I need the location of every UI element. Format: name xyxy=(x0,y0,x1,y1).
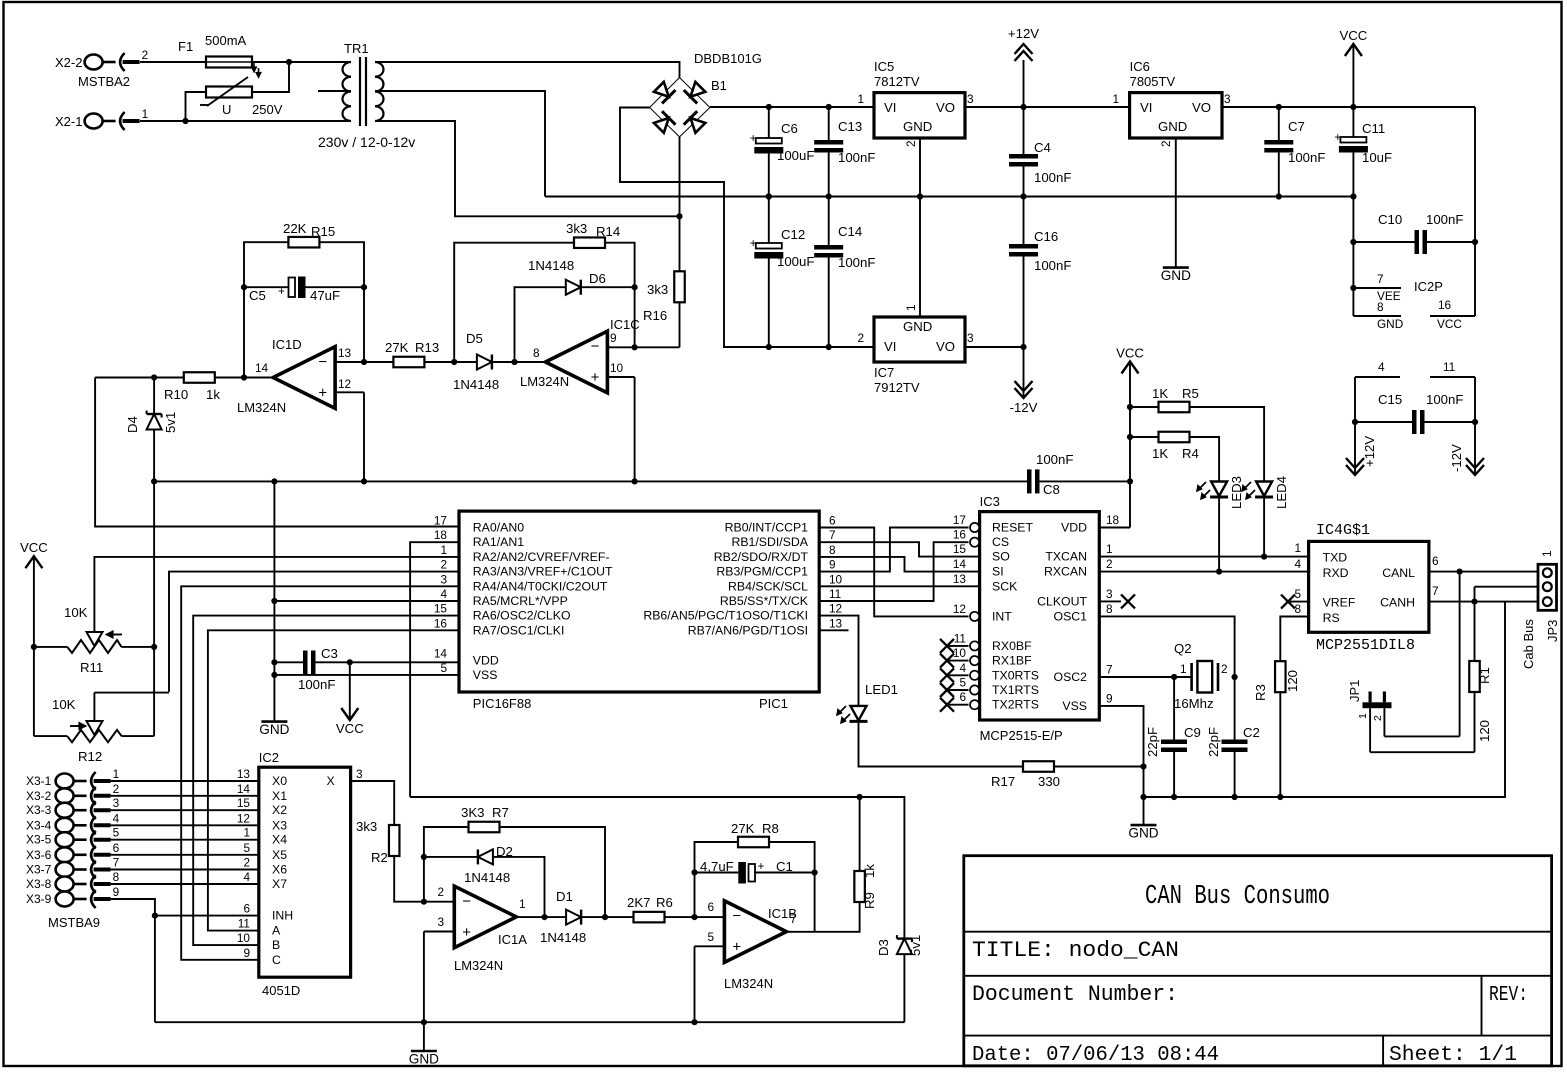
svg-text:3k3: 3k3 xyxy=(356,819,377,834)
junction VSS xyxy=(271,672,277,678)
junction rail/RA4 branch xyxy=(271,478,277,484)
svg-text:120: 120 xyxy=(1477,720,1492,742)
svg-text:+: + xyxy=(732,939,741,956)
wire R17 to VSS line xyxy=(1054,766,1144,768)
ground symbol below C3 xyxy=(261,720,287,723)
capacitor C15 plates xyxy=(1412,410,1417,434)
svg-text:C5: C5 xyxy=(249,288,266,303)
wire R12 left xyxy=(34,735,67,737)
wire D6 right xyxy=(581,286,635,288)
svg-text:VO: VO xyxy=(1192,100,1211,115)
junction CANH/R1 xyxy=(1471,599,1477,605)
svg-text:X0: X0 xyxy=(272,774,287,788)
svg-text:3: 3 xyxy=(1106,587,1113,601)
svg-text:47uF: 47uF xyxy=(310,288,340,303)
svg-text:VI: VI xyxy=(884,339,896,354)
diode D5 1N4148 xyxy=(477,355,492,370)
wire RA3 to R12 wiper route xyxy=(169,572,458,692)
junction C1 right xyxy=(812,869,818,875)
wire RA2 from R11 wiper xyxy=(94,557,458,632)
svg-text:3k3: 3k3 xyxy=(566,221,587,236)
svg-text:11: 11 xyxy=(1443,360,1455,374)
IC5 GND pin to ground rail through IC7 GND xyxy=(919,138,921,317)
VCC flag below C3 xyxy=(349,662,351,720)
no-connect X at IC3 pin y=675.3 xyxy=(940,668,954,682)
IC1A non-inverting input pin 3 xyxy=(424,931,454,933)
wire X3-2 to IC2 X1 xyxy=(111,795,259,797)
junction D6/R14 xyxy=(632,284,638,290)
capacitor C11 polarized xyxy=(1340,137,1366,143)
svg-text:2: 2 xyxy=(904,140,918,147)
wire TR1 secondary bottom to bridge AC xyxy=(375,121,680,216)
wire IC7 VO to -12V xyxy=(965,346,1024,348)
svg-text:1: 1 xyxy=(1180,662,1187,676)
junction R6/C1/R8 node xyxy=(691,914,697,920)
D4 rail continues to R12 xyxy=(153,481,155,736)
svg-text:RXD: RXD xyxy=(1323,566,1349,580)
svg-text:8: 8 xyxy=(1377,300,1384,314)
connector JP3 Cab Bus xyxy=(1538,564,1557,610)
wire IC1B pin5 down to bottom rail xyxy=(694,946,696,1022)
svg-text:4: 4 xyxy=(243,870,250,884)
svg-text:GND: GND xyxy=(1161,268,1191,283)
svg-text:OSC2: OSC2 xyxy=(1054,670,1088,684)
no-connect X at IC3 pin y=704.7 xyxy=(940,698,954,712)
wire X3-9 to INH node xyxy=(111,899,155,917)
resistor R15 22K xyxy=(288,237,319,248)
svg-text:2: 2 xyxy=(1159,140,1173,147)
svg-text:12: 12 xyxy=(237,811,250,825)
bridge diode left-top xyxy=(652,80,675,103)
resistor R2 3k3 xyxy=(389,825,400,856)
voltage regulator IC5 7812TV xyxy=(874,93,965,138)
bottom right ground rail xyxy=(1144,602,1506,797)
svg-text:1k: 1k xyxy=(862,864,877,878)
svg-text:1: 1 xyxy=(113,767,120,781)
svg-text:IC6: IC6 xyxy=(1130,59,1150,74)
resistor R7 3K3 xyxy=(469,822,500,833)
svg-text:D6: D6 xyxy=(589,271,606,286)
svg-text:RA4/AN4/T0CKI/C2OUT: RA4/AN4/T0CKI/C2OUT xyxy=(473,579,608,593)
junction C2 bottom xyxy=(1232,794,1238,800)
IC6 GND pin down xyxy=(1175,138,1177,268)
svg-text:7: 7 xyxy=(1377,272,1384,286)
svg-text:5: 5 xyxy=(1294,587,1301,601)
op-amp IC1B LM324N xyxy=(724,901,786,963)
wire varistor left down to X2-1 line xyxy=(186,92,207,121)
svg-text:VCC: VCC xyxy=(336,721,364,736)
svg-text:3: 3 xyxy=(437,915,444,929)
LED LED3 xyxy=(1211,482,1227,497)
wire X3-4 to IC2 X3 xyxy=(111,824,259,826)
LED3 light arrows xyxy=(1198,482,1206,490)
VCC flag left xyxy=(33,556,35,736)
power flag VCC left xyxy=(25,556,42,568)
crystal Q2 16Mhz xyxy=(1190,663,1193,691)
svg-text:2: 2 xyxy=(437,885,444,899)
svg-text:+: + xyxy=(318,385,327,402)
connector X3-1 pin xyxy=(56,774,74,789)
svg-text:100uF: 100uF xyxy=(777,254,814,269)
svg-text:100nF: 100nF xyxy=(1036,452,1073,467)
svg-text:3: 3 xyxy=(967,331,974,345)
svg-text:X: X xyxy=(327,774,335,788)
svg-text:+: + xyxy=(758,859,765,873)
svg-text:LED3: LED3 xyxy=(1229,476,1244,509)
microcontroller PIC1 PIC16F88 xyxy=(459,511,819,692)
svg-text:16: 16 xyxy=(1438,298,1452,312)
IC3 TXCAN wire to IC4 TXD xyxy=(1099,556,1308,558)
fuse arrows xyxy=(253,63,255,70)
wire IC1B out to R9 xyxy=(815,902,860,932)
bridge diode left-bottom xyxy=(652,111,675,134)
svg-text:DBDB101G: DBDB101G xyxy=(694,51,762,66)
wire VCC rail right corner down to C10 xyxy=(1474,107,1476,242)
svg-text:27K: 27K xyxy=(731,821,755,836)
svg-text:R17: R17 xyxy=(991,774,1015,789)
junction VCC flag / C11 xyxy=(1350,104,1356,110)
svg-text:9: 9 xyxy=(113,885,120,899)
resistor R10 1k xyxy=(184,372,215,383)
varistor U xyxy=(206,87,252,98)
junction C13 top xyxy=(826,104,832,110)
svg-text:IC2P: IC2P xyxy=(1414,279,1443,294)
svg-text:4: 4 xyxy=(113,811,120,825)
svg-text:RA3/AN3/VREF+/C1OUT: RA3/AN3/VREF+/C1OUT xyxy=(473,565,613,579)
R16 wires xyxy=(679,216,681,271)
svg-text:8: 8 xyxy=(1294,602,1301,616)
IC3 VDD wire to VCC xyxy=(1099,527,1130,529)
junction varistor/X2-1 xyxy=(182,118,188,124)
svg-text:100uF: 100uF xyxy=(777,148,814,163)
svg-text:TR1: TR1 xyxy=(344,41,369,56)
resistor R4 1K xyxy=(1159,432,1190,443)
junction C7 top xyxy=(1276,104,1282,110)
TR1 primary centre stub xyxy=(318,90,351,92)
svg-text:R3: R3 xyxy=(1253,684,1268,701)
svg-text:500mA: 500mA xyxy=(205,33,247,48)
wire X2-2 to fuse F1 xyxy=(140,61,206,63)
svg-text:6: 6 xyxy=(113,841,120,855)
wire X3-6 to IC2 X5 xyxy=(111,854,259,856)
svg-text:C: C xyxy=(272,953,281,967)
svg-text:2K7: 2K7 xyxy=(627,895,650,910)
svg-text:OSC1: OSC1 xyxy=(1054,609,1088,623)
bridge diode top-right xyxy=(684,80,707,103)
junction R10/R15/C5 node xyxy=(241,374,247,380)
diode D6 1N4148 xyxy=(566,280,581,295)
title block frame xyxy=(964,856,1552,1066)
wire RB6 to LED1 xyxy=(819,616,858,706)
wire pin9 node to R16 xyxy=(635,346,680,348)
svg-text:1N4148: 1N4148 xyxy=(540,930,586,945)
svg-text:C7: C7 xyxy=(1288,119,1305,134)
svg-text:MCP2515-E/P: MCP2515-E/P xyxy=(980,728,1063,743)
IC3 no-connect pins RX0BF..TX2RTS xyxy=(947,645,969,647)
wire RB4 to IC3 SCK xyxy=(819,585,979,587)
wire C8 right to VCC line xyxy=(1040,480,1131,482)
svg-text:Cab Bus: Cab Bus xyxy=(1521,619,1536,669)
svg-text:RA1/AN1: RA1/AN1 xyxy=(473,535,524,549)
svg-text:14: 14 xyxy=(434,646,448,660)
connector X3-9 pin xyxy=(56,892,74,907)
junction pin9/R16 xyxy=(632,344,638,350)
svg-text:11: 11 xyxy=(954,631,966,645)
svg-text:9: 9 xyxy=(829,558,836,572)
resistor R3 120 xyxy=(1275,661,1286,692)
capacitor C1 4,7uF polarized horizontal xyxy=(738,862,746,884)
output sense rail to D3 xyxy=(410,797,904,939)
resistor R17 330 xyxy=(1023,761,1054,772)
svg-text:2: 2 xyxy=(243,856,250,870)
svg-text:2: 2 xyxy=(857,331,864,345)
svg-text:RB7/AN6/PGD/T1OSI: RB7/AN6/PGD/T1OSI xyxy=(688,623,808,637)
wire R8 right down xyxy=(769,842,815,932)
wire LED3 to RXCAN xyxy=(1218,497,1220,571)
junction C5 right xyxy=(361,284,367,290)
svg-text:SO: SO xyxy=(992,550,1010,564)
svg-text:R9: R9 xyxy=(862,892,877,909)
svg-text:−: − xyxy=(732,908,741,925)
svg-text:C6: C6 xyxy=(781,121,798,136)
svg-text:CLKOUT: CLKOUT xyxy=(1037,594,1087,608)
svg-text:13: 13 xyxy=(237,767,251,781)
capacitor C12 polarized xyxy=(756,243,782,249)
R11 wiper adjust arrow xyxy=(106,634,122,636)
wire CANH to JP3 bottom pin xyxy=(1429,601,1543,603)
svg-text:100nF: 100nF xyxy=(1426,392,1463,407)
power flag VCC above IC3 xyxy=(1122,362,1139,374)
svg-text:GND: GND xyxy=(1377,317,1403,331)
IC1B non-inverting input pin 5 xyxy=(695,945,725,947)
svg-text:R2: R2 xyxy=(371,850,388,865)
capacitor C9 22pF xyxy=(1173,677,1175,740)
wire RA6 branch to IC2 B xyxy=(193,616,458,946)
svg-text:Document Number:: Document Number: xyxy=(972,982,1178,1007)
junction -12V tap xyxy=(1020,344,1026,350)
svg-text:VO: VO xyxy=(936,100,955,115)
wire C13 vertical xyxy=(828,107,830,140)
svg-text:100nF: 100nF xyxy=(838,255,875,270)
svg-text:1N4148: 1N4148 xyxy=(528,258,574,273)
svg-text:4: 4 xyxy=(440,587,447,601)
svg-text:C3: C3 xyxy=(321,646,338,661)
power flag +12V down left xyxy=(1354,422,1356,475)
svg-text:D5: D5 xyxy=(466,331,483,346)
svg-text:D4: D4 xyxy=(125,416,140,433)
svg-text:1: 1 xyxy=(1357,713,1369,719)
svg-text:1K: 1K xyxy=(1152,386,1168,401)
svg-text:X3-8: X3-8 xyxy=(26,877,52,891)
svg-text:RB5/SS*/TX/CK: RB5/SS*/TX/CK xyxy=(720,594,809,608)
junction C8/VCC line xyxy=(1127,478,1133,484)
power flag VCC below C3 xyxy=(341,708,358,720)
junction C4/C16 ground rail xyxy=(1020,193,1026,199)
svg-text:R4: R4 xyxy=(1182,446,1199,461)
wire IC1D pin12 to gnd rail xyxy=(363,392,365,481)
svg-text:10K: 10K xyxy=(64,605,88,620)
svg-text:RB2/SDO/RX/DT: RB2/SDO/RX/DT xyxy=(714,550,809,564)
svg-text:C1: C1 xyxy=(776,859,793,874)
op-amp IC1A LM324N xyxy=(454,886,516,948)
svg-text:GND: GND xyxy=(1158,119,1187,134)
svg-text:R16: R16 xyxy=(643,308,667,323)
svg-text:6: 6 xyxy=(959,690,966,704)
svg-text:100nF: 100nF xyxy=(1288,150,1325,165)
wire RB7 stub xyxy=(819,629,848,631)
svg-text:15: 15 xyxy=(237,796,251,810)
wire bridge + output to IC5 xyxy=(710,106,874,108)
svg-text:R6: R6 xyxy=(656,895,673,910)
wire R10 left node xyxy=(95,377,184,379)
junction R11 right xyxy=(151,644,157,650)
svg-text:VREF: VREF xyxy=(1323,596,1356,610)
svg-text:RXCAN: RXCAN xyxy=(1044,565,1087,579)
capacitor C14 xyxy=(814,245,843,250)
svg-text:3: 3 xyxy=(113,796,120,810)
-12V flag stem xyxy=(1023,347,1025,398)
svg-text:+: + xyxy=(750,131,757,145)
svg-text:4051D: 4051D xyxy=(262,983,300,998)
IC1D output pin 14 xyxy=(244,377,273,379)
svg-text:8: 8 xyxy=(113,870,120,884)
svg-text:5v1: 5v1 xyxy=(908,935,923,956)
capacitor C5 47uF polarized horizontal xyxy=(289,278,296,298)
svg-text:B: B xyxy=(272,938,280,952)
wire R8 left down xyxy=(695,842,739,917)
wire D2 right down xyxy=(493,857,545,917)
svg-text:U: U xyxy=(222,102,231,117)
svg-text:27K: 27K xyxy=(385,340,409,355)
svg-text:100nF: 100nF xyxy=(298,677,335,692)
svg-text:5: 5 xyxy=(113,826,120,840)
CAN transceiver IC4G$1 MCP2551DIL8 xyxy=(1309,541,1429,632)
svg-text:R15: R15 xyxy=(311,224,335,239)
junction C10 left xyxy=(1350,239,1356,245)
svg-text:TXCAN: TXCAN xyxy=(1045,550,1087,564)
wire C11 bottom down to C10 xyxy=(1352,197,1354,243)
svg-text:RESET: RESET xyxy=(992,521,1033,535)
svg-text:2: 2 xyxy=(142,48,149,62)
wire D4 vertical xyxy=(153,378,155,414)
svg-text:VDD: VDD xyxy=(473,653,499,667)
voltage regulator IC6 7805TV xyxy=(1130,93,1222,138)
svg-text:RA6/OSC2/CLKO: RA6/OSC2/CLKO xyxy=(473,609,571,623)
connector X3-4 pin xyxy=(56,818,74,833)
resistor R5 1K xyxy=(1159,402,1190,413)
capacitor C2 22pF xyxy=(1234,677,1236,740)
gnd branch vertical x=274 xyxy=(273,481,275,721)
potentiometer R12 10K xyxy=(67,730,121,742)
wire X3-5 to IC2 X4 xyxy=(111,839,259,841)
svg-text:3: 3 xyxy=(1224,92,1231,106)
svg-text:X3-7: X3-7 xyxy=(26,863,52,877)
svg-text:1: 1 xyxy=(1294,541,1301,555)
svg-text:-12V: -12V xyxy=(1449,444,1464,472)
svg-text:C15: C15 xyxy=(1378,392,1402,407)
svg-text:X2-1: X2-1 xyxy=(55,114,82,129)
svg-text:+12V: +12V xyxy=(1362,436,1377,467)
svg-text:LM324N: LM324N xyxy=(237,400,286,415)
svg-text:RX0BF: RX0BF xyxy=(992,639,1032,653)
IC2P power pins xyxy=(1352,242,1354,316)
junction C12 bottom xyxy=(766,344,772,350)
svg-text:11: 11 xyxy=(829,587,841,601)
wire R7 left down xyxy=(424,827,469,857)
svg-text:X3-2: X3-2 xyxy=(26,789,52,803)
svg-text:15: 15 xyxy=(953,542,967,556)
svg-text:X4: X4 xyxy=(272,833,287,847)
wire IC1A pin3 down to bottom rail xyxy=(423,932,425,1023)
wire VCC to R4 xyxy=(1130,436,1159,438)
svg-text:1: 1 xyxy=(519,897,526,911)
svg-text:1: 1 xyxy=(1112,92,1119,106)
svg-text:Sheet: 1/1: Sheet: 1/1 xyxy=(1389,1043,1517,1067)
svg-text:RS: RS xyxy=(1323,611,1340,625)
LED4 light arrows xyxy=(1243,482,1251,490)
connector X3-3 pin xyxy=(56,803,74,818)
wire VCC to R5 xyxy=(1130,406,1159,408)
svg-text:−: − xyxy=(462,893,471,910)
resistor R8 27K xyxy=(738,837,769,848)
svg-text:IC7: IC7 xyxy=(874,365,894,380)
power flag VCC top xyxy=(1345,44,1362,56)
svg-text:LED4: LED4 xyxy=(1274,476,1289,509)
IC1D inverting input pin 13 xyxy=(335,361,364,363)
svg-text:1N4148: 1N4148 xyxy=(453,377,499,392)
svg-text:7: 7 xyxy=(1432,584,1439,598)
junction rail/IC1D pin12 xyxy=(361,478,367,484)
junction C11 bottom corner xyxy=(1350,193,1356,199)
wire OSC1 to crystal right xyxy=(1099,616,1234,677)
connector X3-6 pin xyxy=(56,847,74,862)
svg-text:VCC: VCC xyxy=(1339,28,1367,43)
resistor R14 3k3 xyxy=(574,237,605,248)
svg-text:3: 3 xyxy=(967,92,974,106)
svg-text:230v / 12-0-12v: 230v / 12-0-12v xyxy=(318,134,415,150)
zener diode D3 5v1 xyxy=(897,937,912,939)
svg-text:RA0/AN0: RA0/AN0 xyxy=(473,521,524,535)
connector X3-8 pin xyxy=(56,877,74,892)
resistor R9 1k xyxy=(854,871,865,902)
junction R11 left xyxy=(31,644,37,650)
wire RB3 to IC3 RESET riser xyxy=(819,528,968,572)
svg-text:R11: R11 xyxy=(80,660,103,675)
junction bottom rail/IC1A pin3 xyxy=(421,1019,427,1025)
IC1B output pin 7 xyxy=(786,931,814,933)
svg-text:F1: F1 xyxy=(178,39,193,54)
ground symbol below IC3 xyxy=(1131,824,1157,827)
svg-text:X3-6: X3-6 xyxy=(26,848,52,862)
connector X3-5 pin xyxy=(56,832,74,847)
svg-text:16: 16 xyxy=(953,528,967,542)
wire C16 vertical xyxy=(1023,197,1025,245)
svg-text:R8: R8 xyxy=(762,821,779,836)
junction R7/D2 xyxy=(421,854,427,860)
wire R14 left down to R13 node xyxy=(454,243,574,362)
svg-text:MSTBA9: MSTBA9 xyxy=(48,915,100,930)
svg-text:1: 1 xyxy=(904,304,918,311)
svg-text:8: 8 xyxy=(533,346,540,360)
junction VCC/R4 xyxy=(1127,434,1133,440)
svg-text:+: + xyxy=(1334,130,1341,144)
svg-text:X2-2: X2-2 xyxy=(55,55,82,70)
svg-text:100nF: 100nF xyxy=(838,150,875,165)
resistor R16 3k3 xyxy=(674,271,685,302)
svg-text:VSS: VSS xyxy=(473,668,498,682)
junction C15 right xyxy=(1472,419,1478,425)
svg-text:4: 4 xyxy=(959,661,966,675)
